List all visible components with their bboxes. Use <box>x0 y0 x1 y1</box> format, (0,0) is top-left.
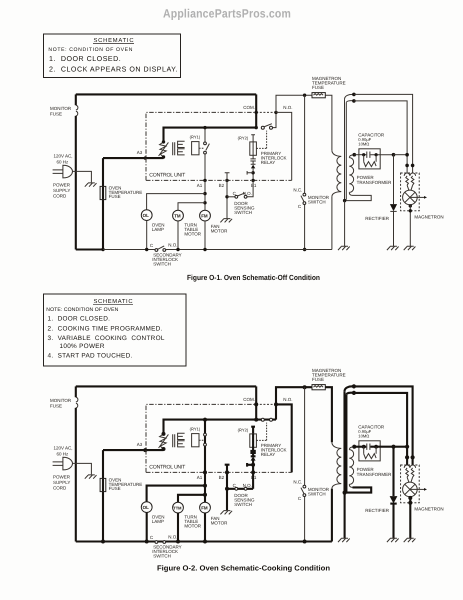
wire NO contact lead lower fig (bold) <box>275 404 277 419</box>
monitor switch blade open lower fig <box>301 488 304 494</box>
node B1 lower fig <box>251 470 255 474</box>
magnetron temperature fuse F3 lower fig <box>312 385 325 390</box>
UPPER FIGURE O-1 <box>44 34 181 78</box>
wire T2 core to ground lower fig (bold) <box>344 493 346 539</box>
ground T2 <box>338 246 350 250</box>
magnetron V1 dashed box <box>401 173 420 211</box>
node T2 core ground junction <box>343 199 346 202</box>
resistor R1 bleeder <box>364 155 376 167</box>
node monitor bottom <box>303 248 306 251</box>
node filament top 2 lower fig <box>352 391 356 395</box>
monitor switch C contact lower fig <box>303 494 306 497</box>
svg-text:CAPACITOR0.90μF10MΩ: CAPACITOR0.90μF10MΩ <box>358 424 385 438</box>
node FM bottom <box>203 248 206 251</box>
monitor switch NC contact lower fig <box>303 485 306 488</box>
svg-text:A1: A1 <box>197 475 203 480</box>
svg-text:MAGNETRON: MAGNETRON <box>414 215 443 220</box>
ground B2 lower fig <box>220 511 232 515</box>
svg-text:B1: B1 <box>251 183 257 188</box>
svg-text:DOORSENSINGSWITCH: DOORSENSINGSWITCH <box>234 493 255 507</box>
ground B2 <box>220 219 232 223</box>
LOWER note box 2 <box>44 294 187 366</box>
monitor fuse F1 <box>76 105 78 116</box>
svg-text:N.O.: N.O. <box>168 534 177 539</box>
rectifier D2 bar <box>390 210 396 212</box>
wire left vertical upper segment lower fig <box>75 386 77 397</box>
wire TM branch <box>178 203 205 210</box>
wire T2 core to ground <box>344 201 346 247</box>
wire T2 primary bottom to rail lower fig (bold) <box>331 489 333 542</box>
magnetron funnel <box>407 185 413 190</box>
node rectifier tap lower fig <box>391 445 395 449</box>
svg-text:3. VARIABLE COOKING CONTROL: 3. VARIABLE COOKING CONTROL <box>48 335 165 342</box>
svg-text:C: C <box>298 204 302 209</box>
LV transformer T1 primary diagonal lower fig <box>159 434 169 448</box>
wire filament to magnetron top <box>354 94 413 173</box>
node B2 <box>225 179 228 182</box>
svg-text:COM.: COM. <box>243 105 255 110</box>
wire OL to bottom <box>146 221 148 250</box>
svg-text:OL: OL <box>143 213 150 218</box>
relay RY2 bars lower fig <box>250 451 255 453</box>
node rectifier tap <box>392 153 396 157</box>
fan motor FM lower fig <box>200 502 211 513</box>
magnetron heater zigzag right lower fig <box>411 468 414 477</box>
wire rectifier vertical <box>393 155 395 204</box>
relay RY2 coil <box>250 142 257 155</box>
node A1 <box>203 179 206 182</box>
magnetron arrowhead lower fig <box>424 488 427 491</box>
LV transformer T1 secondary upper lower fig <box>178 433 185 439</box>
wire NO contact lead <box>273 112 277 127</box>
wire T2 secondary bottom loop lower fig (bold) <box>345 487 372 492</box>
node B2 door switch lower fig <box>225 487 229 491</box>
wire bottom rail lower fig (bold) <box>76 540 332 542</box>
svg-text:MONITORSWITCH: MONITORSWITCH <box>308 195 330 205</box>
svg-text:MONITORFUSE: MONITORFUSE <box>50 398 72 408</box>
capacitor C1 box lower fig <box>359 441 380 461</box>
svg-text:(RY2): (RY2) <box>238 428 249 433</box>
svg-text:TTM: TTM <box>173 506 182 511</box>
node COM contact <box>255 126 258 129</box>
node TTM branch lower fig <box>203 493 207 497</box>
wire CU internal feed lower fig (bold) <box>164 420 257 434</box>
wire monitor switch line lower lower fig <box>304 497 306 542</box>
wire CU internal feed (bold) <box>164 128 257 142</box>
ground magnetron <box>404 246 416 250</box>
svg-text:C: C <box>298 496 302 501</box>
magnetron funnel lower fig <box>407 477 413 482</box>
relay RY2 coil center line <box>252 142 254 159</box>
terminal tick left of D1 <box>247 171 253 175</box>
node B2 lower fig <box>225 470 229 474</box>
svg-text:N.C.: N.C. <box>293 479 302 484</box>
transformer T2 secondary <box>349 155 354 196</box>
secondary interlock NO contact lower fig <box>163 541 166 544</box>
relay RY1 blade open <box>206 144 210 151</box>
relay RY1 coil lower fig <box>192 434 199 447</box>
relay RY2 contact COM lower fig <box>261 418 264 421</box>
node magnetron lead left <box>405 164 409 168</box>
magnetron V1 dashed box lower fig <box>401 465 420 503</box>
magnetron antenna arrow lower fig <box>417 488 424 490</box>
transformer T2 secondary lower fig (bold) <box>349 447 354 488</box>
node COM boundary lower fig <box>254 402 258 406</box>
magnetron V1 tube lower fig <box>403 482 418 497</box>
relay RY1 linkage <box>199 147 203 149</box>
rectifier D2 bar lower fig <box>390 503 396 505</box>
svg-text:1. DOOR CLOSED.: 1. DOOR CLOSED. <box>48 315 111 322</box>
node cap left lower fig <box>362 445 366 449</box>
svg-text:POWERSUPPLYCORD: POWERSUPPLYCORD <box>53 182 71 198</box>
node T2 core ground junction lower fig <box>343 491 347 495</box>
note box 1 <box>44 34 181 78</box>
relay RY1 linkage lower fig <box>199 439 203 441</box>
node TM bottom <box>176 248 179 251</box>
wire oven fuse vertical lower fig (bold) <box>102 450 104 541</box>
magnetron heater zigzag left lower fig <box>406 468 409 477</box>
wire filament to magnetron second lower fig (bold) <box>354 393 407 465</box>
wire B2 down <box>226 180 228 218</box>
svg-text:FM: FM <box>201 214 208 219</box>
relay RY1 contact bottom <box>204 151 207 154</box>
door sensing switch NO contact <box>244 195 247 198</box>
relay RY2 coil lower fig <box>250 434 257 447</box>
node A1 lower fig <box>203 470 207 474</box>
terminal bar above B2 lower fig <box>225 465 230 473</box>
ground rectifier <box>387 246 399 250</box>
magnetron antenna arrow <box>417 196 424 198</box>
svg-text:AppliancePartsPros.com: AppliancePartsPros.com <box>163 7 291 21</box>
wire RY1 contact closed (bold) lower fig <box>204 420 206 473</box>
node cap left <box>362 153 365 156</box>
relay RY2 contact NO lower fig <box>270 418 273 421</box>
relay RY2 contact NO <box>270 126 273 129</box>
secondary interlock C contact <box>155 249 158 252</box>
svg-text:Figure O-1. Oven Schematic-Off: Figure O-1. Oven Schematic-Off Condition <box>187 273 320 282</box>
oven temperature fuse F2 <box>100 186 106 199</box>
note box 1 title underline <box>93 43 134 45</box>
wire B2 down lower fig (bold) <box>226 472 228 510</box>
node magnetron cathode lower fig <box>408 496 412 500</box>
wire top rail lower fig (bold) <box>76 385 256 387</box>
door sensing switch blade open <box>238 193 246 196</box>
svg-text:FANMOTOR: FANMOTOR <box>211 224 228 234</box>
power plug P1 prongs lower fig <box>53 462 63 466</box>
magnetron V1 tube <box>403 190 418 205</box>
secondary interlock C contact lower fig <box>155 541 158 544</box>
terminal bar above B2 <box>225 173 230 181</box>
power plug P1 body <box>63 165 73 178</box>
control unit box <box>146 112 292 180</box>
svg-text:POWERTRANSFORMER: POWERTRANSFORMER <box>357 175 393 185</box>
svg-text:CONTROL UNIT: CONTROL UNIT <box>149 464 186 470</box>
magnetron heater zigzag left <box>406 176 409 185</box>
wire A1 vertical motors <box>204 180 206 210</box>
node OL branch <box>203 192 206 195</box>
ground magnetron lower fig <box>404 538 416 542</box>
node B2 door switch <box>225 195 228 198</box>
wire TM to bottom <box>177 221 179 250</box>
svg-text:RECTIFIER: RECTIFIER <box>365 508 390 513</box>
diode D1 <box>251 161 256 164</box>
wire left vertical upper segment <box>75 94 77 105</box>
wire filament to magnetron top lower fig (bold) <box>354 386 413 465</box>
svg-text:120V AC,60 Hz: 120V AC,60 Hz <box>54 445 73 456</box>
capacitor C1 box <box>359 149 380 169</box>
wire rectifier vertical lower fig (bold) <box>392 447 394 496</box>
svg-text:100% POWER: 100% POWER <box>60 343 105 350</box>
wire COM vertical (bold) <box>255 94 257 127</box>
wire door switch left lead <box>227 196 235 198</box>
LV transformer T1 secondary lower <box>178 149 185 155</box>
oven temperature fuse F2 lower fig <box>100 478 106 491</box>
node NO boundary lower fig <box>274 402 278 406</box>
node D1 junction <box>251 171 254 174</box>
magnetron arrowhead <box>424 196 427 199</box>
node OL bottom lower fig <box>145 540 149 544</box>
node cap right <box>375 153 378 156</box>
wire RY1 to A1 <box>204 154 206 180</box>
ground T2 lower fig <box>338 538 350 542</box>
svg-text:2. COOKING TIME PROGRAMMED.: 2. COOKING TIME PROGRAMMED. <box>48 325 163 332</box>
diode D1 lower fig <box>251 453 256 456</box>
svg-text:OVENLAMP: OVENLAMP <box>152 514 165 524</box>
svg-text:B2: B2 <box>219 183 225 188</box>
magnetron heater zigzag right <box>411 176 414 185</box>
transformer T2 primary <box>332 150 341 196</box>
wire filament to magnetron second <box>354 101 407 173</box>
wire A3 feed horizontal lower fig (bold) <box>103 449 164 451</box>
relay RY1 coil <box>192 142 199 155</box>
svg-text:N.O.: N.O. <box>168 242 177 247</box>
magnetron spokes lower fig <box>405 484 417 494</box>
wire left vertical lower segment lower fig <box>75 408 77 542</box>
wire T2 primary bottom to rail <box>331 197 333 250</box>
svg-text:POWERTRANSFORMER: POWERTRANSFORMER <box>357 467 393 477</box>
ground rectifier lower fig <box>387 538 399 542</box>
magnetron temperature fuse F3 <box>312 93 325 98</box>
svg-text:COM.: COM. <box>243 397 255 402</box>
node filament top 1 lower fig <box>352 384 356 388</box>
svg-text:FM: FM <box>201 506 208 511</box>
wire NO riser to rail <box>276 95 312 112</box>
svg-text:MAGNETRONTEMPERATUREFUSE: MAGNETRONTEMPERATUREFUSE <box>312 368 346 382</box>
node filament top 1 <box>352 93 356 97</box>
relay RY1 contact bottom lower fig <box>204 443 207 446</box>
svg-text:MONITORSWITCH: MONITORSWITCH <box>308 487 330 497</box>
LV transformer T1 core bars lower fig <box>173 434 175 447</box>
note box 2 <box>44 294 187 366</box>
wire rail fuse to primary <box>325 95 332 150</box>
node B1 <box>251 179 254 182</box>
wire top rail (hot, bold) <box>76 93 256 95</box>
node magnetron filament tap lower fig <box>405 445 409 449</box>
svg-text:OVENLAMP: OVENLAMP <box>152 222 165 232</box>
node RY1 top <box>203 126 206 129</box>
svg-text:(RY1): (RY1) <box>190 427 201 432</box>
door sensing switch blade closed lower fig (bold) <box>227 488 253 490</box>
door sensing switch C contact <box>235 195 238 198</box>
wire T2 secondary bottom loop <box>345 195 372 200</box>
svg-text:N.C.: N.C. <box>293 187 302 192</box>
svg-text:N.O.: N.O. <box>243 483 252 488</box>
fuse F3 element <box>314 94 324 96</box>
wire RY1 contact top lead <box>204 128 206 142</box>
wire NO branch to B1 line <box>276 112 292 180</box>
monitor fuse F1 lower fig <box>76 397 78 408</box>
node TM branch <box>203 201 206 204</box>
relay RY2 coil center line lower fig (bold) <box>252 434 254 451</box>
node RY1 top lower fig <box>203 418 207 422</box>
svg-text:DOORSENSINGSWITCH: DOORSENSINGSWITCH <box>234 201 255 215</box>
node filament top 2 <box>352 99 356 103</box>
terminal tick left of D1 lower fig <box>247 463 253 467</box>
capacitor C1 plates lower fig <box>367 444 370 450</box>
wire monitor switch line upper lower fig <box>304 387 306 485</box>
filament lead hook top <box>345 94 354 102</box>
LV transformer T1 core bars <box>173 142 175 155</box>
wire NO branch to B1 line lower fig (bold) <box>276 404 292 472</box>
capacitor C1 plates <box>367 152 370 158</box>
secondary interlock NO contact <box>163 249 166 252</box>
wire COM vertical lower fig (bold) <box>255 386 257 419</box>
relay RY2 bars <box>250 159 255 161</box>
wire bottom rail right segment <box>166 249 332 251</box>
svg-text:PRIMARYINTERLOCKRELAY: PRIMARYINTERLOCKRELAY <box>261 151 287 165</box>
power plug P1 body lower fig <box>63 457 73 470</box>
svg-text:N.O.: N.O. <box>283 105 292 110</box>
LV transformer T1 secondary lower lower fig <box>178 441 185 447</box>
svg-text:MONITORFUSE: MONITORFUSE <box>50 106 72 116</box>
svg-text:1. DOOR CLOSED.: 1. DOOR CLOSED. <box>49 55 121 63</box>
wire HV to magnetron lower fig (bold) <box>394 446 408 448</box>
wire NO riser to rail lower fig (bold) <box>276 387 312 404</box>
svg-text:POWERSUPPLYCORD: POWERSUPPLYCORD <box>53 474 71 490</box>
svg-text:PRIMARYINTERLOCKRELAY: PRIMARYINTERLOCKRELAY <box>261 443 287 457</box>
node secondary top lower fig <box>352 445 356 449</box>
resistor R1 bleeder lower fig <box>364 447 376 459</box>
ground plug cord lower fig <box>85 475 97 479</box>
wire bottom rail to interlock <box>103 249 155 251</box>
svg-text:RECTIFIER: RECTIFIER <box>365 216 390 221</box>
note box 2 title underline <box>93 303 133 305</box>
svg-text:A1: A1 <box>197 183 203 188</box>
wire door switch right lead to B1 lower fig (bold) <box>252 472 254 488</box>
svg-text:CAPACITOR0.90μF10MΩ: CAPACITOR0.90μF10MΩ <box>358 132 385 146</box>
filament lead hook top lower fig <box>345 386 354 394</box>
node magnetron lead right <box>411 164 415 168</box>
rectifier D2 triangle <box>390 204 397 211</box>
rectifier D2 triangle lower fig <box>390 496 398 503</box>
node magnetron cathode <box>409 204 412 207</box>
node rail monitor junction lower fig <box>303 385 307 389</box>
magnetron filament humps lower fig <box>404 465 415 468</box>
door sensing switch NO contact lower fig <box>244 487 247 490</box>
svg-text:CONTROL UNIT: CONTROL UNIT <box>149 172 186 178</box>
wire A1 vertical motors lower fig (bold) <box>204 472 206 502</box>
wire plug cord to ground branch lower fig <box>73 463 92 474</box>
wire plug cord to ground branch <box>73 171 92 182</box>
wire TTM branch lower fig (bold) <box>178 495 205 502</box>
magnetron filament humps <box>404 173 415 176</box>
ground plug cord <box>85 183 97 187</box>
wire HV rail mid lower fig (bold) <box>370 446 393 448</box>
svg-text:4. START PAD TOUCHED.: 4. START PAD TOUCHED. <box>48 352 133 359</box>
svg-text:B2: B2 <box>219 475 225 480</box>
svg-text:OVENTEMPERATUREFUSE: OVENTEMPERATUREFUSE <box>109 185 143 199</box>
svg-text:Figure O-2. Oven Schematic-Coo: Figure O-2. Oven Schematic-Cooking Condi… <box>157 564 331 573</box>
transformer T2 filament leads lower fig (bold) <box>345 391 347 492</box>
monitor switch NC contact <box>303 193 306 196</box>
node magnetron box edge <box>409 209 412 212</box>
relay RY2 contact COM <box>261 126 264 129</box>
secondary interlock blade open <box>157 246 164 250</box>
wire HV rail left <box>354 154 366 156</box>
svg-text:FANMOTOR: FANMOTOR <box>211 516 228 526</box>
svg-text:TURNTABLEMOTOR: TURNTABLEMOTOR <box>184 222 201 236</box>
svg-text:MAGNETRON: MAGNETRON <box>414 507 443 512</box>
node oven fuse to bottom rail <box>101 248 104 251</box>
transformer T2 filament leads <box>345 99 347 200</box>
node magnetron lead right lower fig <box>411 455 415 459</box>
relay RY2 blade open <box>264 124 272 127</box>
wire D1 to B1 <box>252 168 254 180</box>
node cap right lower fig <box>374 445 378 449</box>
wire HV to magnetron <box>394 154 408 156</box>
wire TTM to bottom lower fig (bold) <box>177 513 179 542</box>
relay RY2 terminal bar <box>251 135 255 142</box>
control unit box lower fig <box>146 404 292 472</box>
node OL branch lower fig <box>203 484 207 488</box>
svg-text:C: C <box>150 535 154 540</box>
node OL bottom <box>145 248 148 251</box>
wire magnetron to ground <box>409 205 411 247</box>
node T1 primary bottom lower fig <box>162 447 166 451</box>
diode D1 triangle <box>251 165 255 169</box>
turntable motor TM <box>173 210 184 221</box>
svg-text:N.O.: N.O. <box>283 397 292 402</box>
LV transformer T1 secondary upper <box>178 141 185 147</box>
control unit box top right dashed lower fig <box>256 403 276 405</box>
wire FM to bottom lower fig (bold) <box>204 513 206 542</box>
wire rectifier to ground <box>393 211 395 246</box>
svg-text:(RY1): (RY1) <box>190 135 201 140</box>
svg-text:120V AC,60 Hz: 120V AC,60 Hz <box>54 153 73 164</box>
wire OL branch <box>147 194 205 210</box>
wire FM to bottom <box>204 221 206 250</box>
node monitor bottom lower fig <box>303 540 307 544</box>
node oven fuse bottom lower fig <box>101 540 105 544</box>
wire D1 to B1 lower fig (bold) <box>252 460 254 472</box>
LV transformer T1 primary diagonal <box>159 142 169 156</box>
svg-text:A3: A3 <box>137 442 143 447</box>
wire OL to bottom lower fig (bold) <box>146 513 148 542</box>
svg-text:NOTE: CONDITION OF OVEN: NOTE: CONDITION OF OVEN <box>48 47 132 53</box>
relay RY1 contact top lower fig <box>204 433 207 436</box>
node A3 <box>144 156 147 159</box>
node secondary top <box>353 153 357 157</box>
node magnetron box edge lower fig <box>408 501 412 505</box>
node rail monitor junction <box>303 94 306 97</box>
svg-text:2. CLOCK APPEARS ON DISPLAY.: 2. CLOCK APPEARS ON DISPLAY. <box>49 65 178 73</box>
wire rail fuse to primary lower fig (bold) <box>325 387 332 442</box>
svg-text:SCHEMATIC: SCHEMATIC <box>94 298 133 305</box>
control unit box top right dashed <box>256 111 276 113</box>
wire rectifier to ground lower fig (bold) <box>392 503 394 538</box>
node COM boundary <box>255 111 258 114</box>
relay RY2 terminal bar lower fig <box>251 427 255 434</box>
